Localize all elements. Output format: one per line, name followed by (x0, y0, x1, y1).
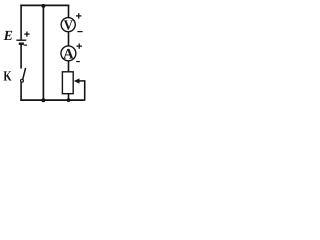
rheostat R1 body rectangle (62, 72, 73, 94)
switch K blade (23, 68, 26, 80)
ammeter minus sign (76, 61, 80, 63)
junction dot top (node A) (41, 4, 45, 8)
battery plus sign (24, 32, 29, 37)
wire left vertical lower (switch to bottom) (20, 82, 22, 101)
svg-text:E: E (3, 29, 13, 44)
wire top horizontal (20, 4, 69, 6)
battery minus sign (24, 44, 27, 46)
wire right vertical (top wire to voltmeter) (68, 5, 70, 18)
rheostat wiper arrowhead (74, 78, 80, 83)
wire wiper return vertical (84, 80, 86, 100)
svg-text:K: K (3, 69, 11, 84)
ammeter U2 circle (61, 46, 76, 61)
wire rheostat bottom lead (68, 94, 70, 100)
wire middle vertical (test conductor) (42, 5, 44, 100)
wire left vertical middle (battery to switch) (20, 45, 22, 69)
junction dot (67, 98, 71, 102)
voltmeter minus sign (77, 31, 82, 33)
svg-text:A: A (63, 46, 74, 62)
voltmeter plus sign (76, 13, 81, 18)
ammeter plus sign (77, 43, 82, 48)
wire bottom horizontal (20, 99, 84, 101)
voltmeter U1 circle (61, 18, 75, 32)
rheostat wiper shaft (79, 80, 85, 82)
switch K contact circle (21, 79, 24, 82)
wire voltmeter to ammeter (68, 32, 70, 46)
battery E long plate (+) (16, 39, 26, 41)
wire ammeter to rheostat (68, 61, 70, 72)
wire left vertical upper (to battery) (20, 5, 22, 40)
junction dot bottom (node B) (41, 98, 45, 102)
battery E short plate (-) (19, 43, 24, 45)
svg-text:V: V (64, 18, 73, 33)
